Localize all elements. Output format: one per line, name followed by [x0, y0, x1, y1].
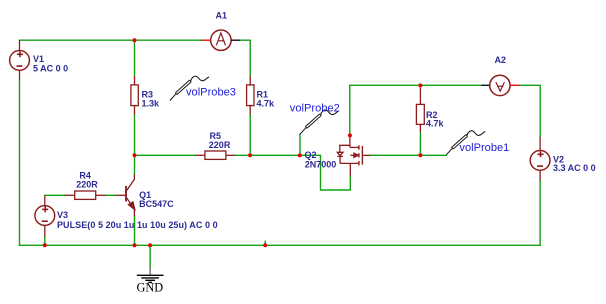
svg-text:4.7k: 4.7k	[257, 99, 276, 109]
svg-text:5 AC 0 0: 5 AC 0 0	[33, 64, 68, 74]
svg-text:1.3k: 1.3k	[142, 99, 161, 109]
svg-text:220R: 220R	[76, 179, 98, 189]
svg-text:V3: V3	[57, 210, 68, 220]
svg-text:A2: A2	[495, 55, 507, 65]
svg-text:volProbe3: volProbe3	[186, 87, 236, 99]
svg-text:V1: V1	[33, 54, 44, 64]
svg-text:PULSE(0 5 20u 1u 1u 10u 25u) A: PULSE(0 5 20u 1u 1u 10u 25u) AC 0 0	[57, 220, 218, 230]
svg-text:3.3 AC 0 0: 3.3 AC 0 0	[553, 163, 596, 173]
svg-text:volProbe2: volProbe2	[290, 102, 340, 114]
svg-text:A1: A1	[216, 10, 228, 20]
svg-text:GND: GND	[137, 281, 164, 295]
svg-text:2N7000: 2N7000	[305, 160, 337, 170]
svg-text:4.7k: 4.7k	[426, 118, 445, 128]
svg-text:BC547C: BC547C	[139, 199, 174, 209]
svg-text:220R: 220R	[209, 140, 231, 150]
svg-text:volProbe1: volProbe1	[459, 142, 509, 154]
